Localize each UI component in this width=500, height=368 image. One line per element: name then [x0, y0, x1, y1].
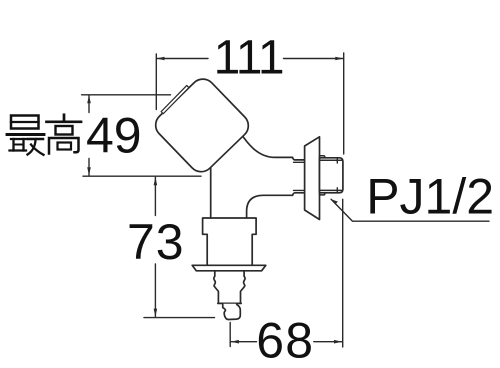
- PJ1/2 leader line: [331, 199, 489, 221]
- dimension 73 line top segment: [154, 177, 156, 215]
- nipple thread line top: [320, 159, 342, 161]
- dimension 111 arrow left: [157, 57, 165, 61]
- thread relief groove bottom: [293, 193, 305, 196]
- dimension saikou49 arrow up: [87, 95, 91, 103]
- faucet body: elbow bottom curve to wall pipe (bottom edge): [247, 195, 293, 218]
- handle (rounded square rotated): [151, 74, 254, 177]
- handle edge sliver: [161, 85, 189, 113]
- dimension 68 arrow right: [334, 340, 342, 344]
- spout tip: [223, 304, 241, 320]
- outlet upper box: [203, 218, 257, 265]
- spout neck with ridges: [214, 271, 219, 304]
- dimension 73 arrow up: [154, 177, 158, 185]
- dimension 68 extension line right: [342, 199, 344, 347]
- outlet pipe left edge: [210, 163, 212, 218]
- spout flange: [192, 265, 266, 271]
- dimension 68 line left segment: [231, 341, 257, 343]
- dimension saikou49 line bottom segment: [88, 159, 90, 176]
- thread relief groove top: [293, 157, 305, 160]
- dimension 111 line left segment: [157, 58, 209, 60]
- nipple thread line bottom: [320, 189, 342, 191]
- pipe axis reference line (bottom of 49 / top of 73): [83, 175, 201, 177]
- dimension 111 arrow right: [335, 57, 343, 61]
- spout bottom edge: [218, 302, 241, 304]
- collar stub top: [320, 156, 325, 158]
- dimension 73 arrow down: [154, 309, 158, 317]
- nipple chamfer ticks: [336, 158, 338, 193]
- dimension 111 extension line right: [343, 53, 345, 154]
- kanji SAI (most) drawn as strokes: [7, 116, 44, 155]
- svg-text:68: 68: [256, 313, 314, 368]
- faucet body: shoulder line from handle to wall pipe (top edge): [237, 128, 293, 158]
- dimension 68 arrow left: [231, 340, 239, 344]
- dimension saikou49 top extension line: [82, 94, 171, 96]
- kanji KOU (high) drawn as strokes: [47, 115, 82, 154]
- svg-text:49: 49: [86, 108, 142, 164]
- dimension 111 line right segment: [284, 58, 344, 60]
- dimension 68 extension line left: [229, 323, 231, 347]
- wall flange (disk seen edge-on): [305, 137, 320, 220]
- dimension 111 extension line left: [155, 54, 157, 110]
- threaded nipple PJ1/2: [320, 158, 343, 193]
- dimension saikou49 line top segment: [88, 95, 90, 112]
- dimension 73 line bottom segment: [154, 264, 156, 317]
- svg-text:111: 111: [214, 32, 284, 85]
- svg-text:PJ1/2: PJ1/2: [366, 168, 494, 224]
- dimension 73 bottom extension line (spout tip level): [144, 317, 215, 319]
- PJ1/2 leader arrowhead: [331, 199, 338, 204]
- svg-text:73: 73: [127, 214, 185, 270]
- dimension 68 line right segment: [314, 341, 342, 343]
- collar stub bottom: [320, 193, 325, 195]
- dimension saikou49 arrow down: [87, 167, 91, 175]
